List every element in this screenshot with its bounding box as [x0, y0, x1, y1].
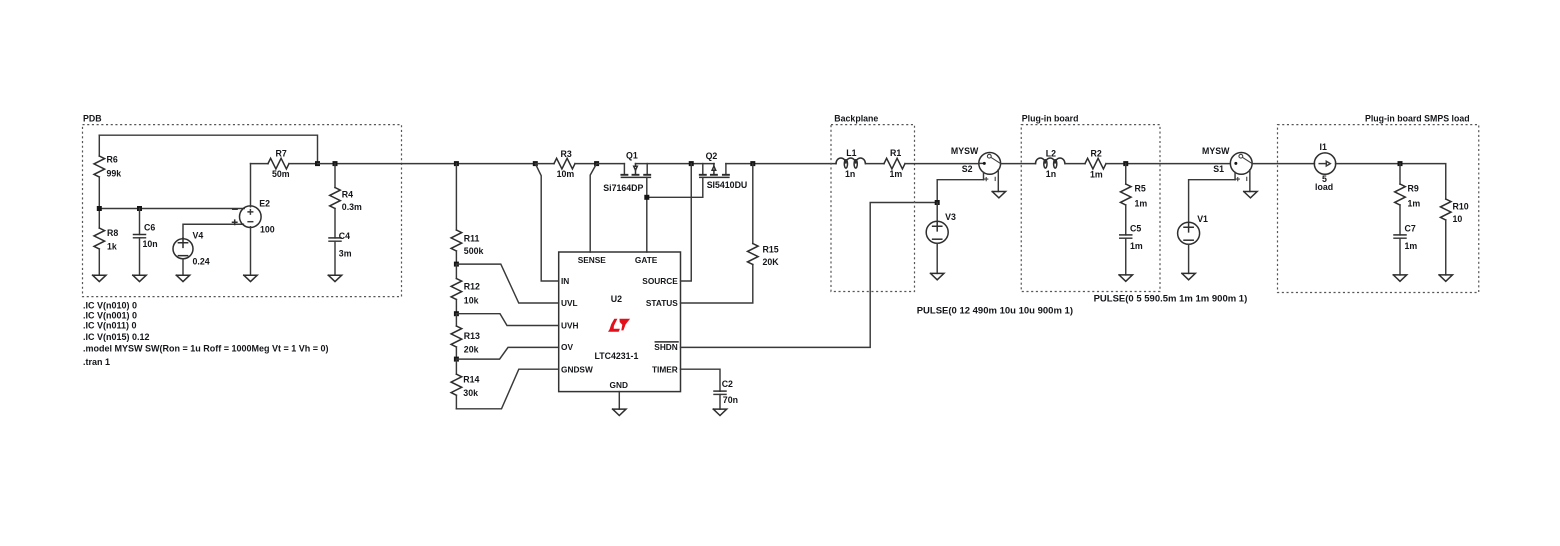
resistor R6 — [94, 135, 105, 208]
svg-text:U2: U2 — [611, 294, 622, 304]
U2 pin SENSE label — [578, 255, 607, 265]
resistor R14 — [451, 359, 462, 409]
junction V3 node — [935, 200, 940, 205]
PDB region dashed box — [83, 125, 402, 297]
R2 value 1m — [1090, 170, 1103, 180]
R7 value 50m — [272, 169, 290, 179]
capacitor C6 — [134, 209, 146, 276]
svg-text:R6: R6 — [107, 154, 118, 164]
wire L1 to R1 — [866, 163, 884, 165]
L2 value 1n — [1046, 169, 1056, 179]
Q2 label — [706, 151, 718, 161]
voltage source V3 — [926, 221, 948, 273]
wire STATUS net — [681, 265, 753, 304]
spice directive .model MYSW — [83, 343, 329, 353]
C5 value 1m — [1130, 241, 1143, 251]
svg-text:10n: 10n — [143, 239, 158, 249]
svg-text:C2: C2 — [722, 379, 733, 389]
R11 label — [464, 233, 480, 243]
C2 value 70n — [723, 395, 738, 405]
U2 pin GNDSW label — [561, 364, 593, 374]
wire UVL net — [456, 264, 558, 303]
V4 label — [193, 231, 204, 241]
svg-text:UVH: UVH — [561, 320, 579, 330]
svg-text:TIMER: TIMER — [652, 364, 678, 374]
capacitor C5 — [1120, 235, 1132, 275]
junction SENSE tap — [594, 161, 599, 166]
S1 label — [1213, 164, 1224, 174]
junction IN tap — [533, 161, 538, 166]
Q1 part Si7164DP — [603, 183, 643, 193]
Plug-in board label — [1022, 113, 1079, 123]
spice directive .tran 1 — [83, 357, 110, 367]
U2 part LTC4231-1 — [595, 351, 639, 361]
resistor R13 — [451, 314, 462, 359]
wire top PDB net — [99, 135, 317, 163]
svg-text:Q2: Q2 — [706, 151, 718, 161]
junction R5 tap — [1123, 161, 1128, 166]
svg-text:R4: R4 — [342, 189, 353, 199]
resistor R10 — [1440, 199, 1451, 275]
svg-text:10m: 10m — [557, 169, 575, 179]
R14 label — [463, 374, 479, 384]
inductor L2 — [1036, 158, 1065, 168]
L1 label — [846, 148, 856, 158]
wire Q2 gate branch — [647, 177, 703, 197]
U2 pin UVH label — [561, 320, 579, 330]
junction R15 tap — [750, 161, 755, 166]
svg-text:0.3m: 0.3m — [342, 202, 362, 212]
svg-text:1m: 1m — [1130, 241, 1143, 251]
svg-text:R5: R5 — [1135, 183, 1146, 193]
R15 value 20K — [763, 257, 780, 267]
R13 value 20k — [464, 345, 479, 355]
vcvs E2 — [233, 164, 262, 276]
svg-text:1n: 1n — [1046, 169, 1056, 179]
R14 value 30k — [463, 388, 478, 398]
resistor R2 — [1085, 158, 1230, 169]
svg-text:1n: 1n — [845, 169, 855, 179]
switch S2 MYSW — [979, 153, 1001, 192]
R5 label — [1135, 183, 1146, 193]
R2 label — [1091, 148, 1102, 158]
C4 label — [339, 231, 350, 241]
svg-text:C5: C5 — [1130, 223, 1141, 233]
capacitor C7 — [1394, 235, 1406, 275]
V1 value PULSE — [1094, 293, 1248, 304]
svg-text:Si7164DP: Si7164DP — [603, 183, 643, 193]
wire IN net — [535, 164, 558, 281]
svg-text:S2: S2 — [962, 164, 973, 174]
R3 label — [561, 149, 572, 159]
svg-text:1m: 1m — [890, 169, 903, 179]
svg-text:IN: IN — [561, 276, 569, 286]
svg-text:V3: V3 — [945, 212, 956, 222]
inductor L1 — [836, 158, 865, 168]
voltage source V4 — [173, 224, 243, 275]
svg-text:10: 10 — [1453, 214, 1463, 224]
R10 value 10 — [1453, 214, 1463, 224]
V3 label — [945, 212, 956, 222]
R10 label — [1453, 201, 1469, 211]
svg-text:R12: R12 — [464, 282, 480, 292]
svg-text:S1: S1 — [1213, 164, 1224, 174]
svg-text:3m: 3m — [339, 248, 352, 258]
wire TIMER net — [681, 369, 721, 391]
junction R9 tap — [1398, 161, 1403, 166]
V1 label — [1197, 214, 1208, 224]
svg-text:L1: L1 — [846, 148, 856, 158]
wire SHDN net — [681, 203, 938, 348]
svg-text:SI5410DU: SI5410DU — [707, 180, 748, 190]
spice directive .IC V(n011) — [83, 320, 137, 330]
svg-text:C7: C7 — [1405, 223, 1416, 233]
svg-text:99k: 99k — [107, 169, 122, 179]
Plug-in board dashed box — [1021, 125, 1160, 292]
wire S1 to SMPS load — [1252, 163, 1314, 165]
R11 value 500k — [464, 246, 484, 256]
wire Q1 gate net — [646, 177, 648, 252]
ground V4 — [176, 275, 189, 281]
resistor R5 — [1120, 164, 1131, 235]
ground V1 — [1182, 273, 1195, 279]
SMPS load label — [1365, 113, 1470, 123]
R6 label — [107, 154, 118, 164]
U2 pin STATUS label — [646, 298, 678, 308]
wire UVH net — [456, 314, 558, 326]
ground R8 — [93, 275, 106, 281]
Q1 label — [626, 150, 638, 160]
svg-text:SOURCE: SOURCE — [642, 276, 678, 286]
svg-text:SENSE: SENSE — [578, 255, 607, 265]
wire bus Q2 to backplane — [726, 163, 836, 165]
C2 label — [722, 379, 733, 389]
svg-text:500k: 500k — [464, 246, 484, 256]
resistor R9 — [1395, 164, 1406, 235]
resistor R11 — [451, 164, 462, 265]
U2 pin TIMER label — [652, 364, 678, 374]
svg-text:Plug-in board: Plug-in board — [1022, 113, 1079, 123]
ground C7 — [1393, 275, 1406, 281]
U2 pin OV label — [561, 342, 573, 352]
U2 pin SHDN label with overline — [654, 342, 678, 352]
U2 pin UVL label — [561, 298, 578, 308]
C5 label — [1130, 223, 1141, 233]
op-amp U2 body box — [559, 252, 681, 392]
svg-text:70n: 70n — [723, 395, 738, 405]
resistor R3 — [535, 158, 596, 169]
L1 value 1n — [845, 169, 855, 179]
svg-text:GND: GND — [610, 380, 628, 390]
resistor R8 — [94, 209, 105, 276]
svg-text:R3: R3 — [561, 149, 572, 159]
svg-text:GATE: GATE — [635, 255, 658, 265]
spice directive .IC V(n015) — [83, 332, 150, 342]
pmos Q2 — [700, 164, 729, 178]
svg-text:Q1: Q1 — [626, 150, 638, 160]
wire I1 to R9 R10 — [1336, 164, 1446, 199]
svg-text:E2: E2 — [259, 198, 270, 208]
svg-text:R11: R11 — [464, 233, 480, 243]
svg-text:0.24: 0.24 — [193, 257, 210, 267]
voltage source V1 — [1178, 222, 1200, 273]
svg-text:1m: 1m — [1135, 198, 1148, 208]
junction gate net — [644, 195, 649, 200]
wire S2 control net — [937, 180, 983, 203]
S2 MYSW label — [951, 146, 979, 156]
svg-text:100: 100 — [260, 225, 275, 235]
R9 value 1m — [1408, 198, 1421, 208]
svg-text:SHDN: SHDN — [654, 342, 678, 352]
ground E2 — [244, 275, 257, 281]
svg-text:PDB: PDB — [83, 113, 102, 123]
svg-text:R10: R10 — [1453, 201, 1469, 211]
svg-text:R9: R9 — [1408, 183, 1419, 193]
LT logo — [608, 319, 630, 332]
resistor R7 — [251, 158, 318, 169]
R8 label — [107, 228, 118, 238]
wire L2 to R2 — [1065, 163, 1085, 165]
svg-text:.IC V(n015) 0.12: .IC V(n015) 0.12 — [83, 332, 150, 342]
ground C4 — [328, 275, 341, 281]
svg-text:L2: L2 — [1046, 148, 1056, 158]
R12 label — [464, 282, 480, 292]
svg-text:.model MYSW SW(Ron = 1u Roff =: .model MYSW SW(Ron = 1u Roff = 1000Meg V… — [83, 343, 329, 353]
R15 label — [763, 245, 779, 255]
R4 value 0.3m — [342, 202, 362, 212]
resistor R12 — [451, 264, 462, 314]
svg-text:C4: C4 — [339, 231, 350, 241]
svg-text:1m: 1m — [1408, 198, 1421, 208]
R4 label — [342, 189, 353, 199]
svg-text:R1: R1 — [890, 148, 901, 158]
S1 MYSW label — [1202, 146, 1230, 156]
ground S1 — [1244, 192, 1257, 198]
U2 label — [611, 294, 622, 304]
junction UVL node — [454, 262, 459, 267]
svg-text:.IC V(n011) 0: .IC V(n011) 0 — [83, 320, 137, 330]
R9 label — [1408, 183, 1419, 193]
R1 label — [890, 148, 901, 158]
junction R6-R8 — [97, 206, 102, 211]
svg-text:30k: 30k — [463, 388, 478, 398]
R5 value 1m — [1135, 198, 1148, 208]
spice directive .IC V(n010) — [83, 300, 137, 310]
junction SOURCE tap — [689, 161, 694, 166]
svg-text:R15: R15 — [763, 245, 779, 255]
Backplane dashed box — [831, 125, 915, 292]
wire node n010 horizontal — [99, 208, 244, 210]
svg-text:LTC4231-1: LTC4231-1 — [595, 351, 639, 361]
capacitor C4 — [329, 238, 341, 275]
R1 value 1m — [890, 169, 903, 179]
svg-text:GNDSW: GNDSW — [561, 364, 593, 374]
Q2 part SI5410DU — [707, 180, 748, 190]
wire bus R3 to Q1 — [597, 163, 625, 165]
ground C2 — [713, 409, 726, 415]
resistor R1 — [884, 158, 979, 169]
svg-text:20k: 20k — [464, 345, 479, 355]
C7 value 1m — [1405, 241, 1418, 251]
wire GND pin — [618, 392, 620, 410]
svg-text:Backplane: Backplane — [834, 113, 878, 123]
I1 value load — [1315, 182, 1333, 192]
svg-text:R14: R14 — [463, 374, 479, 384]
svg-text:C6: C6 — [144, 222, 155, 232]
C6 value 10n — [143, 239, 158, 249]
svg-text:MYSW: MYSW — [1202, 146, 1230, 156]
E2 label — [259, 198, 270, 208]
resistor R4 — [330, 164, 341, 238]
PDB label — [83, 113, 102, 123]
C7 label — [1405, 223, 1416, 233]
current source I1 — [1314, 153, 1335, 174]
R3 value 10m — [557, 169, 575, 179]
ground U2 GND — [613, 409, 626, 415]
svg-text:V1: V1 — [1197, 214, 1208, 224]
junction C6 tap — [137, 206, 142, 211]
V4 value 0.24 — [193, 257, 210, 267]
U2 pin SOURCE label — [642, 276, 678, 286]
spice directive .IC V(n001) — [83, 310, 137, 320]
R6 value 99k — [107, 169, 122, 179]
svg-text:1k: 1k — [107, 242, 117, 252]
wire SOURCE net — [681, 164, 692, 281]
svg-text:MYSW: MYSW — [951, 146, 979, 156]
C4 value 3m — [339, 248, 352, 258]
svg-text:.tran 1: .tran 1 — [83, 357, 110, 367]
svg-text:R8: R8 — [107, 228, 118, 238]
ground V3 — [931, 273, 944, 279]
R13 label — [464, 331, 480, 341]
svg-text:UVL: UVL — [561, 298, 578, 308]
switch S1 MYSW — [1230, 153, 1252, 192]
SMPS load dashed box — [1278, 125, 1479, 293]
wire OV net — [456, 347, 558, 359]
L2 label — [1046, 148, 1056, 158]
wire GNDSW net — [456, 369, 558, 409]
wire SENSE net — [590, 164, 596, 252]
svg-text:.IC V(n010) 0: .IC V(n010) 0 — [83, 300, 137, 310]
junction R4 tap — [333, 161, 338, 166]
wire V3 top — [936, 203, 938, 222]
wire S2 to plug-in board — [1001, 163, 1036, 165]
svg-text:V4: V4 — [193, 231, 204, 241]
capacitor C2 — [714, 391, 726, 409]
svg-text:load: load — [1315, 182, 1333, 192]
junction top-wire bus — [315, 161, 320, 166]
svg-text:PULSE(0 5 590.5m 1m 1m 900m 1): PULSE(0 5 590.5m 1m 1m 900m 1) — [1094, 293, 1248, 304]
wire S1 control net — [1189, 180, 1235, 223]
ground C6 — [133, 275, 146, 281]
svg-text:STATUS: STATUS — [646, 298, 678, 308]
svg-text:10k: 10k — [464, 295, 479, 305]
ground C5 — [1119, 275, 1132, 281]
ground S2 — [992, 192, 1005, 198]
U2 pin GATE label — [635, 255, 658, 265]
resistor R15 — [748, 164, 759, 265]
svg-text:50m: 50m — [272, 169, 290, 179]
junction OV node — [454, 357, 459, 362]
svg-text:1m: 1m — [1405, 241, 1418, 251]
U2 pin GND label — [610, 380, 628, 390]
V3 value PULSE — [917, 305, 1073, 316]
nmos Q1 — [621, 164, 650, 178]
wire bus Q1 to Q2 — [636, 163, 715, 165]
wire bus PDB to R3 — [318, 163, 536, 165]
E2 value 100 — [260, 225, 275, 235]
ground R10 — [1439, 275, 1452, 281]
S2 label — [962, 164, 973, 174]
R8 value 1k — [107, 242, 117, 252]
svg-text:PULSE(0 12 490m 10u 10u 900m 1: PULSE(0 12 490m 10u 10u 900m 1) — [917, 305, 1073, 316]
svg-text:1m: 1m — [1090, 170, 1103, 180]
svg-text:R13: R13 — [464, 331, 480, 341]
C6 label — [144, 222, 155, 232]
R12 value 10k — [464, 295, 479, 305]
svg-text:R7: R7 — [276, 149, 287, 159]
I1 label — [1320, 142, 1327, 152]
I1 value 5 — [1322, 174, 1327, 184]
R7 label — [276, 149, 287, 159]
svg-text:.IC V(n001) 0: .IC V(n001) 0 — [83, 310, 137, 320]
junction R11 tap — [454, 161, 459, 166]
Backplane label — [834, 113, 878, 123]
svg-text:OV: OV — [561, 342, 573, 352]
svg-text:Plug-in board SMPS load: Plug-in board SMPS load — [1365, 113, 1470, 123]
svg-text:20K: 20K — [763, 257, 780, 267]
U2 pin IN label — [561, 276, 569, 286]
junction UVH node — [454, 311, 459, 316]
svg-text:I1: I1 — [1320, 142, 1327, 152]
svg-text:R2: R2 — [1091, 148, 1102, 158]
